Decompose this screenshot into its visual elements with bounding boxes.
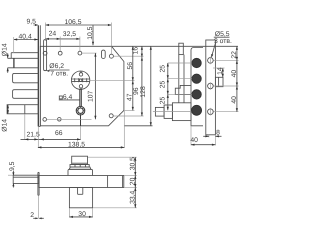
svg-text:32,5: 32,5 [63,31,76,38]
hole bottom 2 [58,118,62,122]
svg-text:9,5: 9,5 [9,161,16,171]
bolt 2 (round deadbolt) [13,73,39,82]
svg-text:30: 30 [78,211,86,218]
dim 10,5 [87,25,94,45]
leader Ø6,2 7 отв. [46,63,70,77]
dim Ø14 latch [2,43,9,73]
spindle hub side profile [153,103,192,121]
faceplate (planka) front [206,40,216,135]
slot top right [102,50,106,59]
svg-text:7 отв.: 7 отв. [50,71,68,78]
dim 8 [203,129,221,137]
dim 30 [69,208,92,218]
svg-text:22: 22 [231,51,238,59]
dim 56 / 47 column [126,46,134,110]
svg-text:Ø14: Ø14 [2,43,9,56]
hole right top [109,54,113,58]
svg-text:8: 8 [216,129,220,136]
svg-text:40: 40 [231,70,238,78]
svg-text:56: 56 [127,62,134,70]
svg-text:25: 25 [159,97,166,105]
knurled knob [76,106,85,115]
dim 40,4 [14,33,38,53]
dim 40 bottom [190,126,215,146]
extension line at x=45.4 [44,23,46,42]
night bolt side view box [215,77,223,86]
latch bolt (top left, beveled) [8,53,39,68]
right column extensions [214,60,239,111]
dim 106,5 top [45,19,111,26]
dim 32,5 [60,31,80,40]
extension line at x=111.4 [110,23,112,55]
spindle slot below cylinder [80,89,82,106]
svg-text:25: 25 [159,81,166,89]
dim 24 [45,31,60,40]
cylinder (key hole) big circle [71,71,89,89]
right side extension lines [90,46,238,126]
latch bolt from below [8,175,39,183]
dim 30,5 / 20 / 33,4 column [88,157,137,208]
dim 128 column [140,46,152,126]
svg-text:10,5: 10,5 [87,26,94,39]
bolt ends (filled circles) [192,58,202,115]
lock body outline (octagon with chamfered right corners) [40,46,124,126]
svg-text:66: 66 [55,130,63,137]
pivot tab top [179,43,184,54]
dim 2 [30,195,44,219]
dim 138,5 [38,111,124,149]
svg-text:106,5: 106,5 [65,19,82,26]
svg-text:128: 128 [140,86,147,98]
cylinder knob from below (stepped dome) [68,156,93,175]
dim 22 / 40 / 40 column [231,46,238,111]
faceplate edge-on strip left of body [38,25,40,126]
screw holes in faceplate [208,57,214,116]
inner profile verticals [179,55,184,103]
bolt 4 (night latch, long) [7,105,38,114]
dim 107 [82,53,97,119]
inner box right [108,176,123,188]
dim 9,5 top left [27,19,39,26]
hole right bottom [109,114,113,118]
bottom holes row line [47,118,92,120]
svg-text:40: 40 [190,137,198,144]
svg-text:16: 16 [132,47,139,55]
body side profile [191,48,203,126]
svg-text:24: 24 [49,31,57,38]
square spindle shaft from below [69,188,92,208]
dim Ø14 night bolt [1,105,9,132]
thumb-turn step profile [175,85,191,94]
bolt 3 (round deadbolt) [13,90,39,99]
svg-text:30,5: 30,5 [129,157,136,170]
svg-text:40,4: 40,4 [19,33,32,40]
svg-text:2: 2 [30,212,34,219]
dim 16 / 96 column [132,46,143,116]
svg-text:107: 107 [88,90,95,102]
svg-text:25: 25 [159,65,166,73]
svg-text:40: 40 [231,96,238,104]
svg-text:Ø14: Ø14 [1,119,8,132]
svg-text:14: 14 [217,67,224,75]
svg-text:20: 20 [129,177,136,185]
svg-text:3 отв.: 3 отв. [214,38,232,45]
slot with hole top-left (screw slot) [43,40,47,71]
hole bottom 1 [43,118,47,122]
hole top 2 [58,51,62,55]
dim 9,5 bottom view [9,161,16,187]
svg-text:33,4: 33,4 [129,190,136,203]
body bar from below [39,176,124,188]
svg-text:21,5: 21,5 [27,132,40,139]
svg-text:138,5: 138,5 [68,142,85,149]
faceplate edge from below [38,172,39,195]
svg-text:Ø6,2: Ø6,2 [49,63,64,70]
leader square 6,4 [59,94,80,101]
dim 25 x3 chain [159,63,192,110]
hole top 3 [78,51,82,55]
svg-text:9,5: 9,5 [27,19,37,26]
dim 21,5 / 66 bottom [21,114,81,141]
dim 14 [213,67,225,77]
label Ø5,5 3 отв. with leader [211,31,232,57]
extension lines for 24/32,5 [60,37,80,52]
axis below knob [80,115,82,126]
